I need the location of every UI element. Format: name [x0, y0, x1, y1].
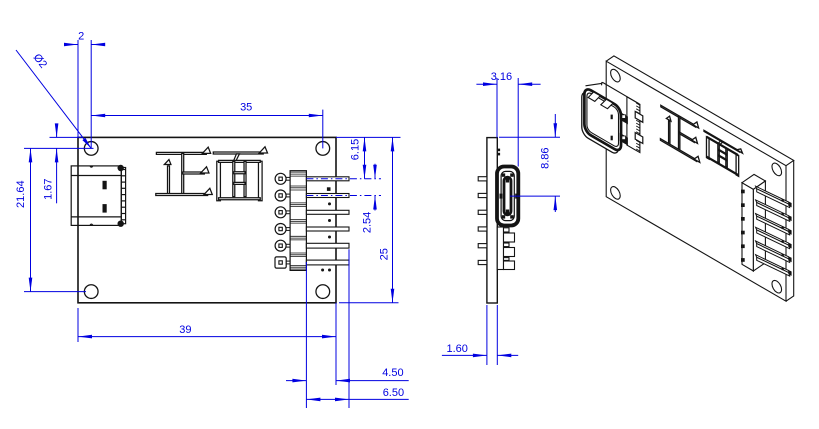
3D text ZhengMian: [660, 101, 742, 188]
pad 6: [275, 257, 286, 268]
pad 1: [275, 173, 286, 184]
dimension 6.50: [306, 398, 349, 400]
mounting hole bottom-right: [316, 285, 330, 299]
board thickness edges: [606, 56, 794, 166]
svg-text:35: 35: [240, 102, 252, 114]
mounting hole top-right: [316, 142, 330, 156]
USB-C connector U1 front view: [71, 166, 125, 226]
3D isometric PCB board: [606, 56, 794, 301]
pad 4: [275, 224, 286, 235]
3D pin 4: [756, 227, 790, 245]
svg-text:4.50: 4.50: [382, 367, 403, 379]
front view PCB board outline: [78, 137, 336, 302]
mounting hole bottom-left: [84, 285, 98, 299]
extension line board bottom right: [339, 302, 399, 304]
extension line hole center y: [24, 147, 94, 149]
mounting hole top-left: [84, 142, 98, 156]
extension line board left edge: [77, 40, 79, 137]
pin 4: [306, 227, 349, 231]
extension line bottom hole y: [24, 291, 86, 293]
svg-text:2: 2: [78, 31, 84, 43]
USB-C connector side view: [497, 167, 518, 226]
3D mounting holes: [611, 67, 782, 295]
3D pin 2: [756, 200, 790, 218]
svg-text:6.50: 6.50: [383, 387, 404, 399]
extension board right edge: [335, 303, 337, 385]
vias: [327, 187, 331, 191]
3D pin 1: [756, 186, 790, 204]
side view USB shell clips: [497, 149, 500, 152]
pin 1: [306, 177, 349, 181]
pin header side view body: [497, 227, 514, 270]
pad 3: [275, 207, 286, 218]
svg-text:8.86: 8.86: [539, 147, 551, 168]
pin header J1 body front view: [290, 171, 306, 271]
pin 1 centerline: [306, 178, 381, 180]
svg-text:1.67: 1.67: [43, 178, 55, 199]
side view PCB board: [487, 138, 497, 303]
svg-text:1.60: 1.60: [446, 343, 467, 355]
ext usb top (board top): [499, 136, 560, 138]
svg-text:21.64: 21.64: [15, 180, 27, 208]
leader dia-2 hole callout: [16, 50, 91, 148]
extension line left edge bottom: [77, 308, 79, 342]
extension line hole center: [90, 40, 92, 148]
ext usb right: [517, 78, 519, 167]
ext board right bottom: [496, 305, 498, 365]
svg-text:39: 39: [179, 324, 191, 336]
pad 5: [275, 240, 286, 251]
pin 3: [306, 210, 349, 214]
pin header J1 3D: [742, 174, 765, 271]
pin 6: [306, 260, 349, 265]
pin 2: [306, 194, 349, 198]
ext board right: [496, 78, 498, 138]
ext board left bottom: [486, 305, 488, 365]
svg-text:3.16: 3.16: [491, 71, 512, 83]
extension pin tip: [348, 249, 350, 408]
pin 5: [306, 243, 349, 248]
3D pin 6: [756, 255, 790, 273]
extension line right hole: [322, 110, 324, 149]
pad 2: [275, 190, 286, 201]
svg-text:6.15: 6.15: [350, 139, 362, 160]
3D pin 3: [756, 214, 790, 232]
dimension 4.50: [286, 380, 306, 382]
extension header right edge: [305, 262, 307, 408]
extension line board top right: [336, 136, 401, 138]
pin 2 centerline: [306, 195, 381, 197]
USB-C connector 3D: [627, 97, 640, 153]
svg-text:2.54: 2.54: [362, 212, 374, 233]
ext usb centerline: [510, 195, 560, 197]
extension line board top: [50, 136, 83, 138]
text ZhengMian (front label): [156, 147, 268, 201]
3D pin 5: [756, 241, 790, 259]
side view header pins (left): [478, 177, 487, 181]
svg-text:25: 25: [379, 248, 391, 260]
